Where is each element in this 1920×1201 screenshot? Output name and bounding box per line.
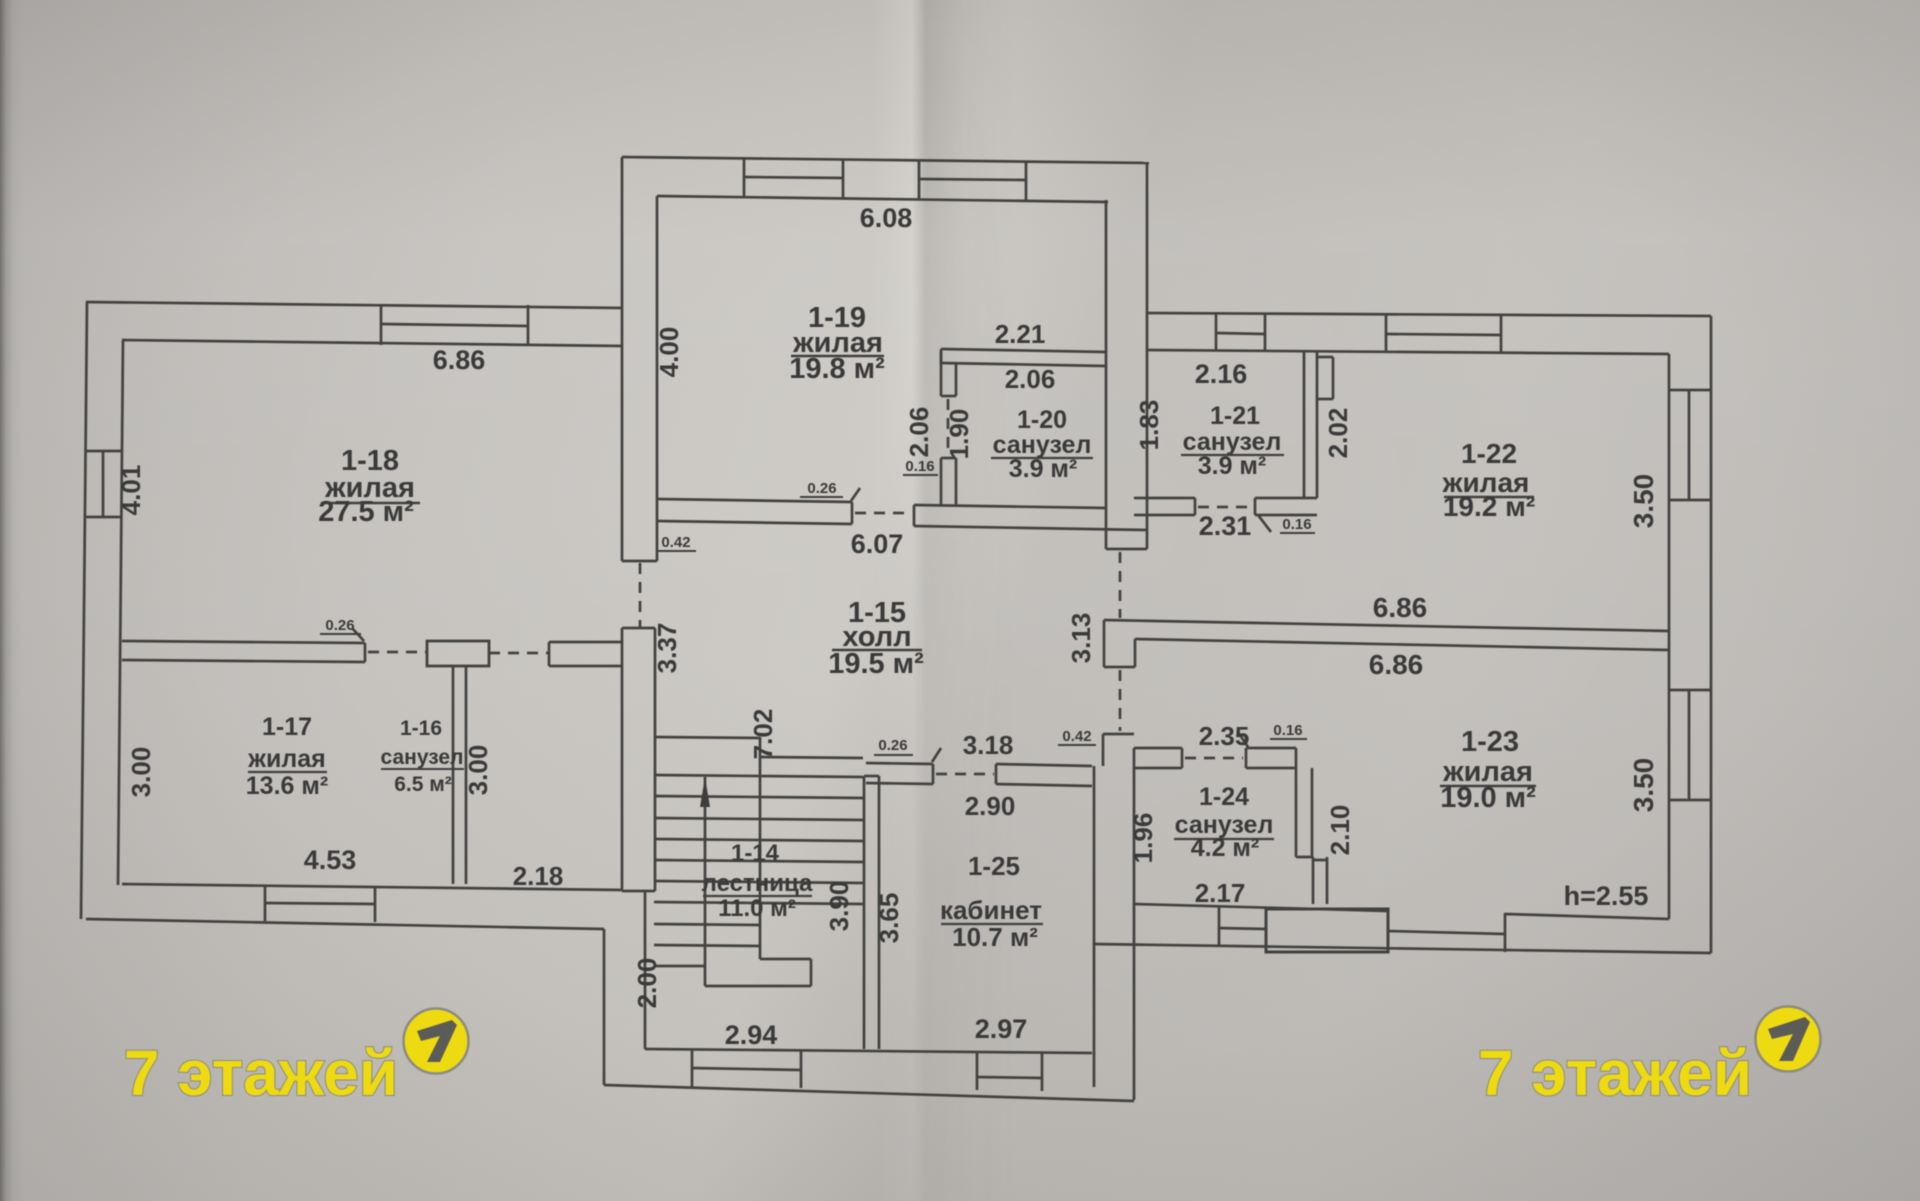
svg-text:3.50: 3.50 xyxy=(1628,474,1659,529)
window W2: cap bottom xyxy=(85,516,121,519)
cap top xyxy=(864,775,879,778)
svg-text:2.94: 2.94 xyxy=(725,1020,778,1050)
window W11: cap left xyxy=(1387,910,1390,950)
svg-text:2.35: 2.35 xyxy=(1199,721,1250,751)
cap xyxy=(941,395,956,398)
svg-text:3.65: 3.65 xyxy=(874,893,904,944)
wall: partition 1-17/1-16 west line xyxy=(452,666,455,884)
svg-text:3.00: 3.00 xyxy=(463,745,493,796)
stairs 1-14 treads full width xyxy=(654,775,863,777)
svg-text:санузел: санузел xyxy=(381,746,464,769)
cap bottom xyxy=(1104,666,1135,669)
svg-text:3.00: 3.00 xyxy=(126,747,156,798)
wall: 1-24 east wall west line upper xyxy=(1295,748,1298,857)
wall: hall west inner line xyxy=(654,628,657,891)
wall: left outer (west facade) xyxy=(81,302,87,919)
svg-text:6.86: 6.86 xyxy=(1369,649,1424,680)
svg-text:4.2 м²: 4.2 м² xyxy=(1191,834,1260,862)
svg-text:2.31: 2.31 xyxy=(1199,511,1252,541)
wall: 1-24 north east part lower xyxy=(1246,767,1296,770)
svg-text:1.90: 1.90 xyxy=(944,409,974,460)
wall: center block top inner xyxy=(657,196,1108,202)
svg-text:1.96: 1.96 xyxy=(1128,813,1158,864)
wall: 1-21 south upper line east part xyxy=(1255,497,1317,500)
wall: 1-20 west upper segment xyxy=(940,352,943,396)
svg-text:2.18: 2.18 xyxy=(513,861,564,891)
door dash 1-19 entry xyxy=(855,512,912,515)
wall piece lower line xyxy=(549,665,623,668)
door swing tick xyxy=(1238,732,1248,747)
wall: left-wing top inner xyxy=(122,340,623,346)
door threshold D1 cap right xyxy=(800,1051,803,1088)
window W7: cap right xyxy=(1500,315,1503,353)
svg-text:13.6 м²: 13.6 м² xyxy=(246,772,328,800)
door threshold D2 cap left xyxy=(976,1053,979,1090)
cap 1-19 south wall east end xyxy=(851,502,854,524)
svg-text:1-16: 1-16 xyxy=(400,717,442,740)
door dash hall east lower xyxy=(1119,670,1122,731)
wall piece left cap xyxy=(548,642,551,666)
1-21 east wall jog rect lines xyxy=(1317,356,1333,359)
wall: right wing bottom outer xyxy=(1094,944,1711,953)
svg-text:2.90: 2.90 xyxy=(965,791,1016,821)
wall: 1-19 south upper line xyxy=(657,499,852,502)
wall: hall north (1-20 south) upper line xyxy=(914,505,1106,508)
door threshold D1 cap left xyxy=(691,1050,694,1087)
svg-text:7 этажей: 7 этажей xyxy=(124,1037,398,1109)
stairs landing edge top xyxy=(760,958,811,961)
wall: stair block bottom inner xyxy=(645,1049,1092,1053)
wall: 1-25 north upper line (west part) xyxy=(866,763,933,764)
cap xyxy=(1194,498,1197,515)
svg-text:7 этажей: 7 этажей xyxy=(1478,1037,1752,1109)
svg-text:4.53: 4.53 xyxy=(304,845,357,875)
svg-text:1-21: 1-21 xyxy=(1210,402,1260,430)
svg-text:1-23: 1-23 xyxy=(1461,726,1519,758)
wall: stair block west outer xyxy=(603,929,606,1085)
wall: 1-24 north stub upper xyxy=(1134,747,1182,750)
wall: 1-21 east wall east line xyxy=(1316,352,1319,498)
wall: 1-20 west lower stub xyxy=(940,458,943,506)
wall: hall north lower line xyxy=(914,526,1147,530)
door dash 1-21 entry xyxy=(1198,506,1252,509)
svg-text:0.16: 0.16 xyxy=(905,458,934,475)
window W3: glazing line xyxy=(265,903,375,904)
watermark logo right glyph 7 xyxy=(1768,1017,1810,1061)
svg-text:жилая: жилая xyxy=(247,745,325,773)
svg-text:3.13: 3.13 xyxy=(1066,613,1096,664)
wall: 1-25 north lower line (east part) xyxy=(996,784,1092,786)
svg-text:2.17: 2.17 xyxy=(1195,878,1246,908)
cap xyxy=(1245,748,1248,768)
door threshold D2 line xyxy=(977,1077,1042,1078)
svg-text:1-14: 1-14 xyxy=(731,840,780,867)
watermark logo right circle xyxy=(1756,1007,1821,1072)
door dash 1-16 entry xyxy=(489,652,549,655)
wall: 1-21 east wall west line xyxy=(1303,352,1306,498)
svg-text:3.50: 3.50 xyxy=(1628,758,1659,813)
svg-text:1-17: 1-17 xyxy=(262,713,312,741)
wall: 1-21 south upper line west part xyxy=(1134,497,1195,500)
svg-text:3.37: 3.37 xyxy=(652,623,682,674)
wall: left-wing top outer xyxy=(86,302,623,308)
window W11: glazing line xyxy=(1388,931,1505,934)
west line of piece xyxy=(1102,734,1105,766)
stairs treads left flight lower xyxy=(654,924,760,925)
window W9: cap top xyxy=(1669,689,1711,692)
svg-text:7.02: 7.02 xyxy=(748,709,778,760)
door dash hall NE xyxy=(1119,552,1122,618)
door swing tick at partition end xyxy=(352,628,364,641)
inner corner line xyxy=(1134,639,1137,667)
svg-text:6.08: 6.08 xyxy=(860,203,913,233)
window W11: cap right xyxy=(1504,913,1507,952)
wall: central wall east line xyxy=(1146,162,1149,549)
svg-text:3.9 м²: 3.9 м² xyxy=(1198,452,1267,480)
wall: 1-25 north upper line (east part) xyxy=(996,764,1092,766)
svg-text:3.9 м²: 3.9 м² xyxy=(1009,455,1078,483)
stairs landing edge bottom xyxy=(705,985,811,988)
window W10: cap right xyxy=(1265,907,1268,947)
wall: 1-25 north lower line (west part) xyxy=(866,783,933,784)
window W2: glazing line xyxy=(102,451,105,517)
window W8: cap top xyxy=(1669,389,1711,392)
wall: partition 1-18/1-17 upper line xyxy=(122,641,365,643)
window W5: glazing line xyxy=(919,179,1026,180)
window W7: glazing line xyxy=(1386,334,1501,335)
stairs tread top right flight xyxy=(761,757,863,758)
door threshold D1 line xyxy=(692,1068,801,1070)
svg-text:0.42: 0.42 xyxy=(661,534,690,551)
svg-text:3.90: 3.90 xyxy=(824,881,854,932)
door swing tick xyxy=(1258,515,1271,532)
svg-text:2.06: 2.06 xyxy=(904,407,934,458)
wall: right wing east inner xyxy=(1668,354,1671,919)
wall: 1-21 south lower line east part xyxy=(1255,514,1317,517)
svg-text:h=2.55: h=2.55 xyxy=(1564,881,1649,911)
wall: center block top outer xyxy=(622,157,1149,163)
svg-text:6.5 м²: 6.5 м² xyxy=(394,773,452,796)
window W6: cap left xyxy=(1215,313,1218,351)
svg-text:0.16: 0.16 xyxy=(1282,516,1311,533)
wall: left-wing bottom inner xyxy=(122,884,623,890)
wall: 1-22/1-23 divider bottom line xyxy=(1135,639,1669,650)
window W1: glazing line xyxy=(381,324,528,326)
svg-text:6.86: 6.86 xyxy=(1373,592,1428,623)
wall: right wing top outer xyxy=(1147,313,1711,316)
svg-text:0.42: 0.42 xyxy=(1062,728,1091,745)
svg-text:6.86: 6.86 xyxy=(433,345,486,375)
svg-text:2.06: 2.06 xyxy=(1005,364,1056,394)
window W8: glazing line xyxy=(1688,390,1691,500)
window W1 in top wall: cap left xyxy=(380,304,383,345)
wall pier in bottom wall (bold) xyxy=(1266,909,1388,952)
wall: right wing east outer xyxy=(1710,316,1713,953)
window W1: cap right xyxy=(527,305,530,346)
window W4: glazing line xyxy=(744,177,843,178)
window W9: glazing line xyxy=(1688,690,1691,800)
svg-text:27.5 м²: 27.5 м² xyxy=(318,496,414,528)
cap xyxy=(995,764,998,784)
wall: 1-25 west line b xyxy=(878,776,881,1049)
cap west end xyxy=(913,505,916,526)
svg-text:кабинет: кабинет xyxy=(940,895,1042,925)
watermark logo left circle xyxy=(404,1009,469,1074)
wall: 1-20 north upper line xyxy=(941,349,1106,352)
svg-text:10.7 м²: 10.7 м² xyxy=(952,922,1038,952)
svg-text:0.26: 0.26 xyxy=(878,737,907,754)
wall: stair block west inner xyxy=(644,891,647,1049)
svg-text:3.18: 3.18 xyxy=(963,730,1014,760)
svg-text:1-20: 1-20 xyxy=(1017,406,1067,434)
window W2 in west wall: cap top xyxy=(85,450,122,453)
window W7: cap left xyxy=(1385,314,1388,352)
window W4: cap left xyxy=(743,158,746,198)
wall: right wing west inner line xyxy=(1133,748,1136,1100)
svg-text:2.97: 2.97 xyxy=(975,1014,1028,1044)
svg-text:1-25: 1-25 xyxy=(968,851,1020,881)
wall: 1-24 east wall east line upper xyxy=(1311,768,1314,857)
window W10: glazing line xyxy=(1219,928,1266,929)
svg-text:19.8 м²: 19.8 м² xyxy=(789,353,885,385)
door threshold D2 cap right xyxy=(1041,1053,1044,1091)
wall: 1-19 south lower line xyxy=(657,521,852,524)
cap 1-20 north west end xyxy=(940,349,943,363)
cap at 1-18 east wall lower end xyxy=(622,560,657,563)
svg-text:6.07: 6.07 xyxy=(851,529,904,559)
wall: center/1-18 west outer line upper xyxy=(621,157,624,561)
svg-text:19.0 м²: 19.0 м² xyxy=(1440,782,1536,814)
wall: 1-24 north east part upper xyxy=(1246,747,1296,750)
window W10: cap left xyxy=(1218,906,1221,946)
wall: stair block bottom outer xyxy=(604,1085,1134,1101)
window W3: cap right xyxy=(374,887,377,922)
wall: partition end cap xyxy=(364,643,367,662)
window W6: cap right xyxy=(1264,314,1267,352)
svg-text:4.01: 4.01 xyxy=(116,465,146,516)
wall: 1-25 east / right wing west outer line xyxy=(1093,766,1096,1087)
cap at hall west wall bottom xyxy=(622,890,655,893)
wall: left-wing bottom outer xyxy=(86,919,604,929)
wall: piece above 1-24 cap top xyxy=(1103,733,1134,736)
wall: right wing top inner xyxy=(1147,350,1669,354)
wall piece to hall west wall: top line xyxy=(549,641,623,644)
cap xyxy=(932,764,935,784)
svg-text:19.2 м²: 19.2 м² xyxy=(1443,491,1535,522)
door swing tick xyxy=(851,488,860,501)
wall: central wall west line xyxy=(1105,200,1108,549)
window W8: cap bottom xyxy=(1669,499,1711,502)
wall: 1-22/1-23 divider top line (6.86) xyxy=(1104,620,1669,631)
window W9: cap bottom xyxy=(1669,799,1711,802)
svg-text:0.26: 0.26 xyxy=(325,617,354,634)
wall: partition 1-18/1-17 lower line xyxy=(122,660,365,662)
svg-text:1-22: 1-22 xyxy=(1461,438,1517,469)
svg-text:11.0 м²: 11.0 м² xyxy=(718,895,796,922)
wall: hall east L piece west line xyxy=(1103,620,1106,667)
cap at hall west wall upper end xyxy=(622,627,655,630)
stairs landing edge right xyxy=(810,959,813,986)
svg-text:19.5 м²: 19.5 м² xyxy=(828,648,924,680)
window W5: cap right xyxy=(1025,161,1028,201)
svg-text:лестница: лестница xyxy=(702,870,813,897)
wall: 1-24 north stub lower xyxy=(1134,767,1182,770)
wall: left inner xyxy=(118,340,123,885)
door dash 1-25 entry xyxy=(936,773,994,776)
svg-text:2.10: 2.10 xyxy=(1325,805,1355,856)
window W4: cap right xyxy=(842,159,845,199)
wall: right wing bottom inner east part xyxy=(1505,914,1669,919)
wall: partition 1-17/1-16 east line xyxy=(465,666,468,884)
watermark logo left glyph 7 xyxy=(417,1020,457,1062)
wall: 1-24 east wall jog lines lower xyxy=(1312,857,1315,904)
svg-text:2.02: 2.02 xyxy=(1323,408,1353,459)
svg-text:2.21: 2.21 xyxy=(995,319,1046,349)
door dash hall/1-18 xyxy=(639,563,642,627)
stairs stringer V1 xyxy=(704,777,707,986)
svg-text:2.00: 2.00 xyxy=(632,958,662,1009)
cap central wall bottom xyxy=(1106,548,1147,551)
door dash 1-17 entry xyxy=(368,651,427,654)
wall: 1-20 north lower line xyxy=(941,363,1106,366)
svg-text:0.26: 0.26 xyxy=(807,480,836,497)
door swing tick xyxy=(932,748,941,762)
door dash 1-20 entry xyxy=(947,399,950,455)
window W6: glazing line xyxy=(1216,333,1265,334)
cap xyxy=(1181,748,1184,768)
cap xyxy=(941,457,956,460)
svg-text:0.16: 0.16 xyxy=(1273,722,1302,739)
cap xyxy=(1254,498,1257,515)
stairs tread top left flight xyxy=(654,737,760,738)
wall: right wing bottom inner west part xyxy=(1134,904,1388,911)
svg-text:1.83: 1.83 xyxy=(1134,400,1164,451)
wall: center west inner line xyxy=(656,196,659,561)
wall pier between doors (rect) xyxy=(427,641,489,666)
window W5: cap left xyxy=(918,160,921,200)
wall: 1-25 west line a xyxy=(863,776,866,1049)
svg-text:2.16: 2.16 xyxy=(1195,359,1248,389)
window W3 in bottom wall: cap left xyxy=(264,886,267,921)
door dash 1-24 entry xyxy=(1185,757,1243,760)
stairs stringer V2 xyxy=(759,737,762,959)
svg-text:1-24: 1-24 xyxy=(1199,783,1249,811)
wall: 1-21 south lower line west part xyxy=(1134,514,1195,517)
svg-text:4.00: 4.00 xyxy=(654,327,684,378)
wall: hall west outer line xyxy=(621,628,624,891)
stairs arrow head xyxy=(700,777,710,807)
